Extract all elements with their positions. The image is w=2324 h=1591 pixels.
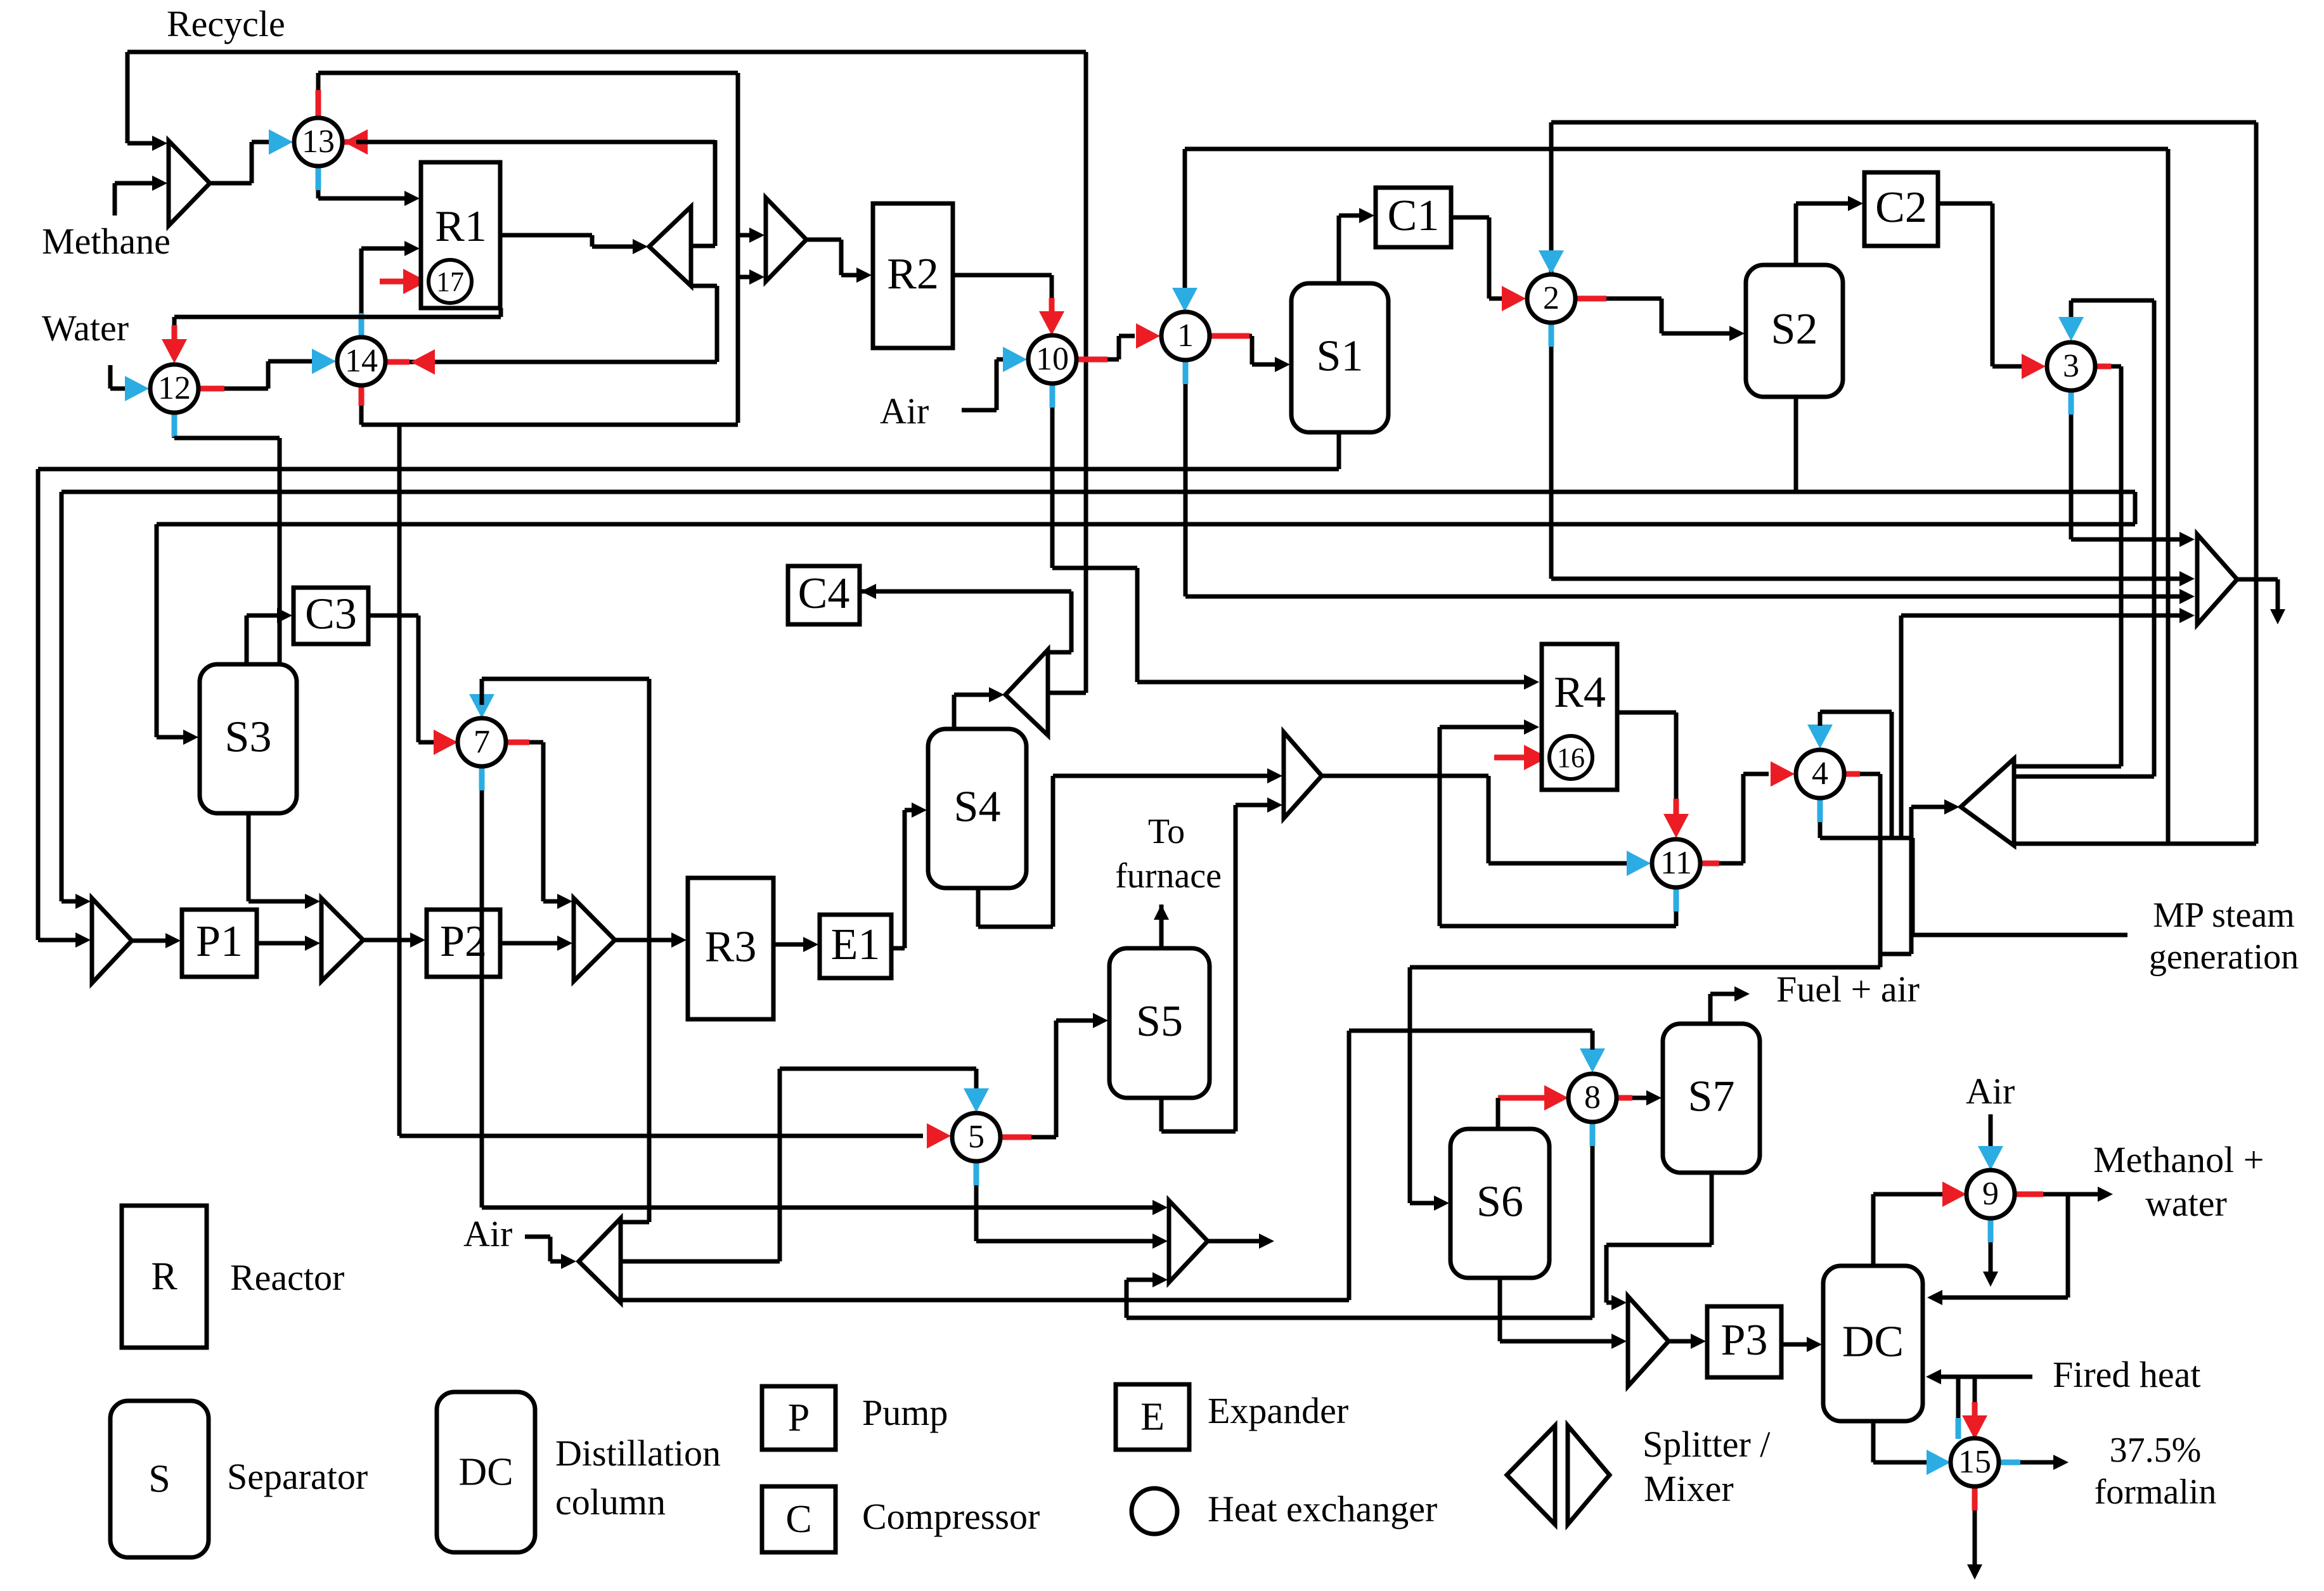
- svg-text:R1: R1: [435, 202, 487, 251]
- svg-text:S2: S2: [1771, 305, 1818, 354]
- svg-text:16: 16: [1557, 742, 1585, 773]
- svg-text:column: column: [555, 1481, 666, 1523]
- svg-text:P: P: [788, 1396, 810, 1440]
- svg-text:R2: R2: [887, 250, 939, 299]
- svg-text:Mixer: Mixer: [1644, 1468, 1734, 1509]
- svg-text:furnace: furnace: [1115, 856, 1222, 896]
- svg-text:water: water: [2145, 1183, 2227, 1224]
- svg-text:Methane: Methane: [42, 221, 171, 262]
- svg-text:E1: E1: [831, 920, 881, 969]
- svg-text:R4: R4: [1554, 668, 1606, 717]
- svg-text:Reactor: Reactor: [230, 1257, 344, 1298]
- svg-text:Distillation: Distillation: [555, 1433, 721, 1474]
- svg-text:Fired heat: Fired heat: [2053, 1354, 2201, 1395]
- svg-text:Water: Water: [42, 307, 129, 349]
- svg-text:Air: Air: [1966, 1071, 2015, 1112]
- svg-text:Heat exchanger: Heat exchanger: [1208, 1488, 1437, 1530]
- svg-text:S4: S4: [954, 783, 1001, 832]
- svg-text:P1: P1: [196, 917, 243, 966]
- svg-text:generation: generation: [2149, 937, 2299, 977]
- svg-text:Pump: Pump: [862, 1392, 948, 1433]
- svg-text:Compressor: Compressor: [862, 1496, 1040, 1537]
- svg-text:DC: DC: [1842, 1318, 1904, 1367]
- svg-text:Expander: Expander: [1208, 1390, 1348, 1431]
- svg-text:S: S: [148, 1458, 170, 1501]
- svg-text:15: 15: [1958, 1444, 1991, 1480]
- svg-text:9: 9: [1982, 1176, 1999, 1212]
- svg-text:Air: Air: [463, 1213, 512, 1254]
- svg-text:Separator: Separator: [227, 1456, 368, 1497]
- svg-text:Methanol +: Methanol +: [2093, 1139, 2264, 1180]
- svg-text:DC: DC: [458, 1451, 513, 1494]
- svg-text:Air: Air: [880, 390, 929, 432]
- svg-text:Recycle: Recycle: [167, 3, 285, 44]
- svg-text:C: C: [785, 1498, 811, 1541]
- svg-text:Splitter /: Splitter /: [1643, 1424, 1771, 1465]
- svg-text:C4: C4: [798, 569, 850, 618]
- svg-text:10: 10: [1036, 341, 1069, 377]
- svg-text:S5: S5: [1136, 997, 1183, 1046]
- svg-text:5: 5: [968, 1119, 984, 1155]
- svg-text:11: 11: [1660, 845, 1692, 881]
- svg-text:Fuel + air: Fuel + air: [1776, 969, 1920, 1010]
- svg-text:4: 4: [1812, 756, 1828, 792]
- svg-text:8: 8: [1584, 1079, 1601, 1116]
- svg-text:C1: C1: [1388, 191, 1440, 240]
- svg-text:1: 1: [1177, 318, 1194, 354]
- svg-text:2: 2: [1543, 280, 1559, 316]
- svg-text:17: 17: [436, 266, 464, 297]
- svg-text:7: 7: [474, 724, 490, 760]
- svg-text:S7: S7: [1688, 1072, 1735, 1121]
- svg-text:formalin: formalin: [2095, 1472, 2217, 1512]
- svg-text:R: R: [151, 1255, 178, 1298]
- svg-text:P3: P3: [1721, 1316, 1768, 1365]
- svg-text:12: 12: [158, 370, 191, 406]
- svg-text:MP steam: MP steam: [2153, 896, 2294, 935]
- svg-text:S1: S1: [1317, 332, 1364, 381]
- svg-text:E: E: [1140, 1396, 1165, 1439]
- svg-text:S6: S6: [1476, 1178, 1523, 1227]
- svg-text:37.5%: 37.5%: [2110, 1431, 2202, 1470]
- svg-text:R3: R3: [705, 923, 757, 972]
- svg-text:C2: C2: [1875, 183, 1927, 232]
- svg-text:S3: S3: [225, 713, 272, 762]
- svg-text:C3: C3: [305, 590, 357, 639]
- svg-text:3: 3: [2063, 348, 2079, 384]
- svg-text:14: 14: [345, 343, 378, 379]
- svg-text:To: To: [1148, 812, 1185, 851]
- svg-text:13: 13: [302, 124, 335, 160]
